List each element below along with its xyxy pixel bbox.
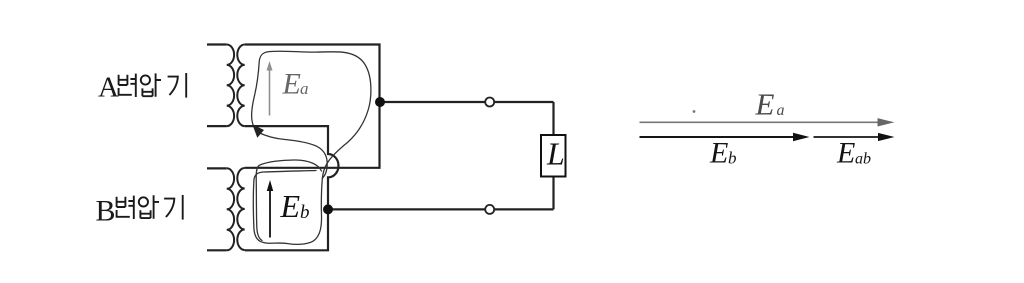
- svg-text:E: E: [836, 136, 855, 169]
- transformer A primary lead bottom: [207, 125, 227, 127]
- speck: [693, 110, 696, 113]
- transformer A secondary winding: [237, 45, 244, 127]
- svg-text:a: a: [777, 102, 785, 119]
- svg-text:ab: ab: [855, 151, 871, 168]
- load L box: [541, 135, 566, 177]
- arrow E_b (circuit): [269, 185, 271, 238]
- wire: load right side: [552, 102, 554, 209]
- phasor E_b vector: [640, 136, 795, 138]
- svg-text:E: E: [709, 137, 728, 170]
- svg-text:b: b: [300, 202, 310, 223]
- wire: A secondary bottom with hop over B top wire, down to B secondary bottom: [245, 126, 339, 250]
- phasor E_a vector: [640, 121, 880, 123]
- svg-text:E: E: [282, 67, 301, 100]
- label B transformer "B변압기": [96, 195, 183, 228]
- circulating current loop inner pass (B loop): [256, 160, 321, 241]
- svg-text:b: b: [728, 149, 737, 168]
- transformer A primary lead top: [207, 43, 227, 45]
- transformer B primary lead bottom: [207, 249, 227, 251]
- circulating current loop around A and B secondaries: [252, 51, 371, 244]
- node dot bottom (B junction): [323, 204, 333, 214]
- wire: load top: [380, 101, 554, 103]
- svg-text:E: E: [280, 188, 301, 224]
- arrow E_a (circuit): [269, 66, 271, 116]
- svg-text:E: E: [755, 87, 775, 122]
- node dot top (A junction): [375, 97, 385, 107]
- wire: load bottom: [328, 208, 554, 210]
- circulating current strand into arrowhead: [259, 133, 328, 179]
- svg-text:A: A: [98, 71, 119, 103]
- wire: A secondary top, right bus down to B secondary top: [245, 45, 380, 168]
- transformer B secondary winding: [237, 168, 244, 250]
- svg-text:B: B: [96, 195, 116, 228]
- phasor E_ab segment: [814, 136, 880, 138]
- terminal circle top: [485, 98, 494, 107]
- label A transformer "A변압기": [98, 71, 186, 103]
- svg-text:a: a: [300, 79, 309, 98]
- svg-text:L: L: [546, 136, 565, 172]
- circulating current arrowhead: [252, 124, 264, 138]
- transformer B primary winding: [227, 168, 234, 250]
- transformer A primary winding: [227, 45, 234, 127]
- transformer B primary lead top: [207, 167, 227, 169]
- terminal circle bottom: [485, 205, 494, 214]
